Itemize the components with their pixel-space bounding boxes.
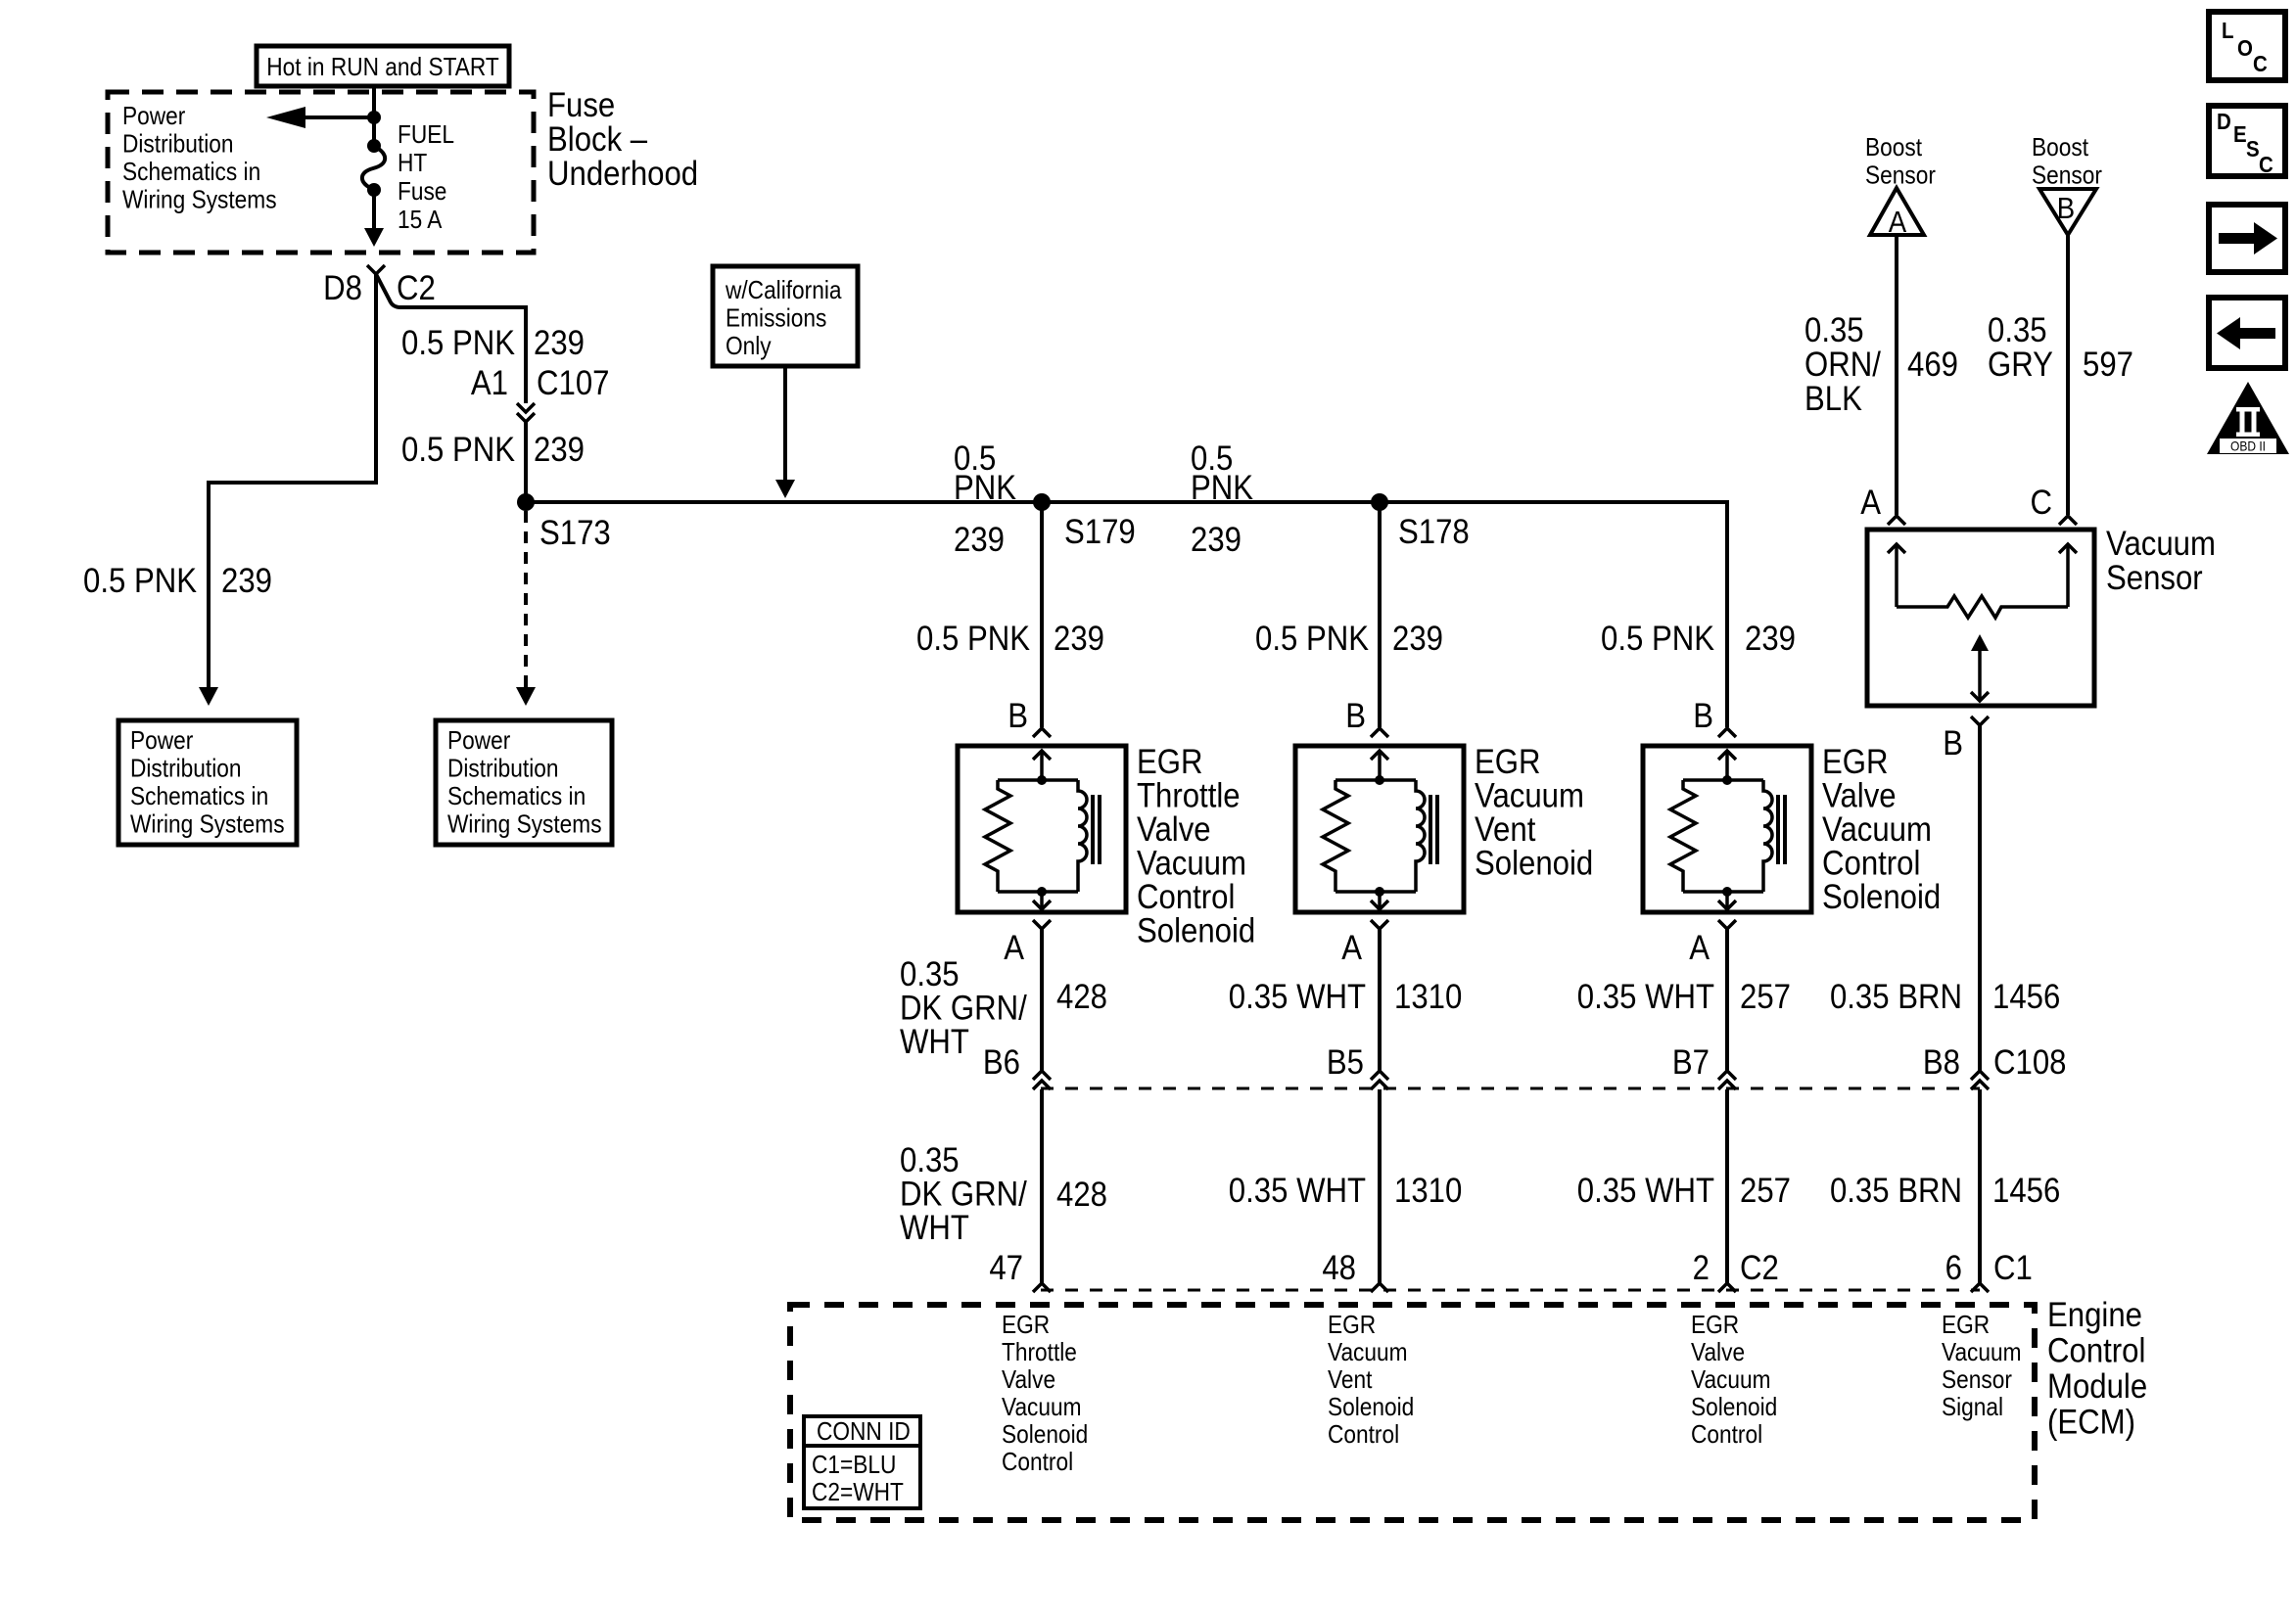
in-line connector C108 dashed line — [1041, 1087, 1980, 1090]
label: Fuse Block - Underhood — [547, 86, 698, 193]
wire: solenoid 2 pin A down to connector C108 — [1378, 929, 1382, 1071]
svg-text:B: B — [1007, 697, 1028, 735]
in-line connector chevrons at C108 (wire 3) — [1718, 1071, 1736, 1089]
svg-text:Sensor: Sensor — [2032, 162, 2102, 190]
svg-text:DK GRN/: DK GRN/ — [900, 990, 1028, 1028]
solenoid 1 box — [958, 746, 1126, 912]
solenoid 3 coil — [1763, 780, 1772, 892]
svg-text:428: 428 — [1056, 978, 1107, 1016]
pin chevron B (vacuum sensor) — [1971, 716, 1989, 725]
svg-text:HT: HT — [398, 150, 427, 178]
solenoid 3 internal arrow bottom — [1718, 892, 1736, 909]
solenoid 1 coil — [1078, 780, 1087, 892]
wire: solenoid 1 pin A down to connector C108 — [1040, 929, 1044, 1071]
svg-text:EGR: EGR — [1475, 743, 1541, 781]
svg-text:239: 239 — [221, 562, 272, 600]
svg-text:Distribution: Distribution — [447, 755, 558, 783]
boost sensor A off-page triangle — [1870, 188, 1924, 239]
OBD II icon triangle — [2207, 382, 2289, 454]
svg-text:239: 239 — [1054, 620, 1104, 658]
label: solenoid 2 name — [1475, 743, 1593, 883]
label: 0.35 DK GRN/ WHT | 428 (upper) — [900, 955, 1107, 1061]
vacuum sensor pin C arm — [2059, 544, 2077, 607]
svg-text:Distribution: Distribution — [122, 130, 233, 159]
svg-text:Vacuum: Vacuum — [2106, 525, 2216, 563]
label: 0.5 PNK | 239 (solenoid 3 feed) — [1601, 620, 1796, 658]
svg-text:Vacuum: Vacuum — [1942, 1339, 2022, 1367]
svg-text:Vacuum: Vacuum — [1691, 1366, 1771, 1395]
solenoid 3 top rail — [1683, 778, 1763, 782]
svg-text:6: 6 — [1945, 1249, 1962, 1287]
svg-text:0.5 PNK: 0.5 PNK — [83, 562, 197, 600]
svg-text:S: S — [2246, 136, 2260, 162]
svg-text:469: 469 — [1907, 346, 1958, 384]
solenoid 3 box — [1643, 746, 1811, 912]
svg-text:B5: B5 — [1327, 1043, 1364, 1082]
svg-text:0.35: 0.35 — [900, 1141, 960, 1179]
label: solenoid 1 name — [1137, 743, 1255, 950]
power source box "Hot in RUN and START" — [257, 46, 509, 86]
svg-text:PNK: PNK — [954, 469, 1016, 507]
svg-text:Fuse: Fuse — [547, 86, 615, 124]
solenoid 2 core bars — [1430, 795, 1437, 864]
svg-text:L: L — [2222, 18, 2234, 43]
splice S178 — [1371, 493, 1388, 511]
svg-text:Solenoid: Solenoid — [1475, 845, 1593, 883]
label: solenoid 3 name — [1822, 743, 1941, 916]
svg-text:B6: B6 — [983, 1043, 1020, 1082]
svg-text:Solenoid: Solenoid — [1328, 1394, 1414, 1422]
solenoid 2 node bottom — [1375, 887, 1384, 897]
svg-text:2: 2 — [1693, 1249, 1710, 1287]
ECM pin row dashed line — [1041, 1289, 1980, 1292]
wire: splice to solenoid 1 pin B — [1040, 502, 1044, 727]
wire: solenoid 3 pin A down to connector C108 — [1725, 929, 1729, 1071]
svg-text:239: 239 — [534, 431, 585, 469]
svg-text:Signal: Signal — [1942, 1394, 2003, 1422]
svg-text:Throttle: Throttle — [1002, 1339, 1077, 1367]
svg-text:S178: S178 — [1398, 513, 1470, 551]
svg-text:Schematics in: Schematics in — [130, 783, 268, 811]
pin chevron A (solenoid 2) — [1371, 920, 1388, 929]
vacuum sensor pin A arm — [1888, 544, 1905, 607]
svg-text:Block –: Block – — [547, 120, 648, 159]
wire: splice to solenoid 2 pin B — [1378, 502, 1382, 727]
svg-text:239: 239 — [1191, 521, 1242, 559]
svg-text:Vacuum: Vacuum — [1137, 845, 1246, 883]
solenoid 3 node top — [1722, 775, 1732, 785]
svg-text:Control: Control — [1691, 1421, 1762, 1450]
svg-text:w/California: w/California — [725, 277, 842, 305]
vacuum sensor wiper arrow — [1971, 634, 1989, 701]
pin labels 2 | C2 — [1693, 1249, 1779, 1287]
svg-text:Hot in RUN and START: Hot in RUN and START — [266, 54, 499, 82]
wire: C108 to ECM (wire 3) — [1725, 1089, 1729, 1283]
pin chevron at ECM (wire 2) — [1371, 1283, 1388, 1292]
svg-text:0.35 BRN: 0.35 BRN — [1830, 1172, 1962, 1210]
svg-text:C: C — [2259, 152, 2273, 177]
pin chevron B (solenoid 1) — [1033, 728, 1051, 737]
solenoid 1 core bars — [1093, 795, 1100, 864]
svg-text:WHT: WHT — [900, 1209, 969, 1247]
svg-text:Engine: Engine — [2047, 1296, 2142, 1334]
svg-text:Sensor: Sensor — [1865, 162, 1936, 190]
svg-text:Throttle: Throttle — [1137, 777, 1241, 815]
engine control module dashed box — [790, 1305, 2035, 1520]
svg-text:B: B — [1345, 697, 1366, 735]
fuse FUEL HT 15 A — [362, 139, 385, 197]
svg-text:Wiring Systems: Wiring Systems — [130, 810, 285, 839]
svg-text:239: 239 — [1392, 620, 1443, 658]
svg-text:S173: S173 — [539, 514, 611, 552]
svg-text:C108: C108 — [1993, 1043, 2066, 1082]
svg-text:Distribution: Distribution — [130, 755, 241, 783]
svg-text:FUEL: FUEL — [398, 121, 454, 150]
svg-text:0.35 WHT: 0.35 WHT — [1229, 978, 1366, 1016]
DESC icon box — [2209, 106, 2285, 177]
svg-text:Solenoid: Solenoid — [1822, 878, 1941, 916]
wire: C108 to ECM (wire 1) — [1040, 1089, 1044, 1283]
svg-text:S179: S179 — [1064, 513, 1136, 551]
svg-text:Wiring Systems: Wiring Systems — [447, 810, 602, 839]
note: Power Distribution Schematics in Wiring Systems (fuse block) — [122, 103, 277, 214]
label: 0.35 BRN | 1456 (lower) — [1830, 1172, 2060, 1210]
svg-text:Control: Control — [2047, 1332, 2145, 1370]
label: Boost Sensor (A) — [1865, 134, 1936, 190]
label: 0.5 PNK | 239 (C2 branch) — [401, 324, 585, 362]
solenoid 1 internal arrow bottom — [1033, 892, 1051, 909]
svg-text:0.35 WHT: 0.35 WHT — [1229, 1172, 1366, 1210]
svg-text:0.35 WHT: 0.35 WHT — [1577, 978, 1714, 1016]
svg-text:E: E — [2233, 121, 2247, 147]
svg-text:C2=WHT: C2=WHT — [812, 1479, 904, 1507]
solenoid 2 node top — [1375, 775, 1384, 785]
solenoid 2 internal arrow bottom — [1371, 892, 1388, 909]
label: 0.35 WHT | 257 (lower) — [1577, 1172, 1791, 1210]
label: Boost Sensor (B) — [2032, 134, 2102, 190]
svg-text:239: 239 — [954, 521, 1005, 559]
svg-text:A: A — [1004, 929, 1025, 967]
svg-text:0.5 PNK: 0.5 PNK — [916, 620, 1030, 658]
svg-text:Control: Control — [1002, 1449, 1073, 1477]
svg-text:(ECM): (ECM) — [2047, 1404, 2135, 1442]
label: 0.35 GRY | 597 — [1988, 311, 2133, 384]
wire: C2 branch to C107 — [376, 274, 526, 403]
svg-text:Boost: Boost — [1865, 134, 1922, 162]
svg-text:D: D — [2217, 109, 2231, 134]
pin chevron at ECM (wire 3) — [1718, 1283, 1736, 1292]
label: 0.35 WHT | 1310 (upper) — [1229, 978, 1462, 1016]
svg-text:Valve: Valve — [1691, 1339, 1745, 1367]
svg-text:Valve: Valve — [1137, 810, 1211, 849]
svg-text:Solenoid: Solenoid — [1691, 1394, 1777, 1422]
in-line connector C107 double chevron — [517, 403, 535, 422]
solenoid 2 internal arrow top — [1371, 751, 1388, 780]
pin labels D8 | C2 — [323, 269, 436, 307]
label: FUEL HT Fuse 15 A — [398, 121, 454, 235]
svg-text:Wiring Systems: Wiring Systems — [122, 186, 277, 214]
vacuum sensor box — [1867, 530, 2094, 706]
arrow: feed to power distribution schematics (left) — [266, 107, 374, 128]
solenoid 1 top rail — [998, 778, 1078, 782]
svg-text:Valve: Valve — [1822, 777, 1897, 815]
svg-text:0.5 PNK: 0.5 PNK — [401, 324, 515, 362]
splice S173 — [517, 493, 535, 511]
svg-text:Solenoid: Solenoid — [1002, 1421, 1088, 1450]
pin labels 6 | C1 — [1945, 1249, 2033, 1287]
svg-text:Power: Power — [122, 103, 185, 131]
solenoid 1 bottom rail — [998, 890, 1078, 894]
label: 0.35 WHT | 257 (upper) — [1577, 978, 1791, 1016]
svg-text:GRY: GRY — [1988, 346, 2053, 384]
wire: C107 to S173 — [524, 422, 528, 502]
svg-text:428: 428 — [1056, 1176, 1107, 1214]
pin chevron at ECM (sensor wire) — [1971, 1283, 1989, 1292]
svg-text:0.5 PNK: 0.5 PNK — [1255, 620, 1369, 658]
svg-text:EGR: EGR — [1822, 743, 1889, 781]
svg-text:Only: Only — [726, 333, 773, 361]
svg-text:A1: A1 — [471, 364, 508, 402]
svg-text:47: 47 — [989, 1249, 1023, 1287]
label: 0.35 ORN/ BLK | 469 — [1804, 311, 1958, 418]
solenoid 2 top rail — [1335, 778, 1416, 782]
in-line connector chevrons at C108 (wire 2) — [1371, 1071, 1388, 1089]
solenoid 3 node bottom — [1722, 887, 1732, 897]
svg-text:597: 597 — [2083, 346, 2133, 384]
solenoid 2 coil — [1416, 780, 1425, 892]
svg-text:CONN ID: CONN ID — [817, 1418, 911, 1447]
solenoid 2 box — [1295, 746, 1464, 912]
svg-text:C2: C2 — [397, 269, 436, 307]
svg-text:Boost: Boost — [2032, 134, 2088, 162]
forward arrow icon box — [2209, 205, 2285, 272]
ECM pin function: EGR Vacuum Sensor Signal — [1942, 1312, 2022, 1422]
ECM pin function: EGR Valve Vacuum Solenoid Control — [1691, 1312, 1777, 1450]
pin chevron A (solenoid 3) — [1718, 920, 1736, 929]
svg-text:A: A — [1689, 929, 1710, 967]
label: 0.35 BRN | 1456 (upper) — [1830, 978, 2060, 1016]
svg-text:Underhood: Underhood — [547, 155, 698, 193]
labels 0.5 PNK / 239 left of S179 — [954, 439, 1016, 559]
svg-text:Schematics in: Schematics in — [447, 783, 586, 811]
vacuum sensor label — [2106, 525, 2216, 597]
svg-text:0.35: 0.35 — [900, 955, 960, 993]
svg-text:Control: Control — [1328, 1421, 1399, 1450]
label: 0.5 PNK | 239 (below C107) — [401, 431, 585, 469]
svg-text:EGR: EGR — [1002, 1312, 1050, 1340]
in-line connector chevrons at C108 (sensor wire) — [1971, 1071, 1989, 1089]
svg-text:BLK: BLK — [1804, 380, 1862, 418]
svg-text:257: 257 — [1740, 1172, 1791, 1210]
svg-text:1310: 1310 — [1394, 1172, 1462, 1210]
solenoid 3 internal arrow top — [1718, 751, 1736, 780]
wire: C108 to ECM (sensor wire) — [1978, 1089, 1982, 1283]
svg-text:Vent: Vent — [1475, 810, 1535, 849]
arrow into left power distribution box — [199, 687, 218, 706]
solenoid 2 resistor — [1323, 780, 1348, 892]
power distribution schematics box (left) — [118, 720, 297, 845]
svg-text:B7: B7 — [1672, 1043, 1710, 1082]
pin chevron A (solenoid 1) — [1033, 920, 1051, 929]
svg-text:C1=BLU: C1=BLU — [812, 1452, 896, 1480]
labels 0.5 PNK / 239 left of S178 — [1191, 439, 1253, 559]
label: 0.5 PNK | 239 (D8 branch) — [83, 562, 272, 600]
svg-text:Schematics in: Schematics in — [122, 159, 260, 187]
solenoid 3 resistor — [1670, 780, 1696, 892]
svg-text:Vent: Vent — [1328, 1366, 1373, 1395]
svg-text:A: A — [1860, 484, 1882, 522]
svg-text:C1: C1 — [1993, 1249, 2033, 1287]
vacuum sensor resistor element — [1897, 596, 2068, 618]
svg-text:Emissions: Emissions — [726, 304, 826, 333]
svg-text:B: B — [2057, 192, 2075, 226]
svg-text:Power: Power — [447, 727, 510, 756]
svg-text:0.35: 0.35 — [1988, 311, 2047, 349]
connector ID table — [804, 1416, 920, 1508]
svg-text:B: B — [1693, 697, 1713, 735]
svg-text:1456: 1456 — [1992, 1172, 2060, 1210]
wire: boost sensor A to vacuum sensor pin A — [1895, 235, 1898, 515]
solenoid 2 bottom rail — [1335, 890, 1416, 894]
svg-text:C2: C2 — [1740, 1249, 1779, 1287]
svg-text:Vacuum: Vacuum — [1002, 1394, 1082, 1422]
pin labels A and C (vacuum sensor) — [1860, 484, 2052, 522]
svg-text:C: C — [2031, 484, 2052, 522]
svg-text:Power: Power — [130, 727, 193, 756]
svg-text:Valve: Valve — [1002, 1366, 1055, 1395]
pin labels B8 | C108 — [1923, 1043, 2067, 1082]
svg-text:15 A: 15 A — [398, 207, 443, 235]
back arrow icon box — [2209, 298, 2285, 368]
svg-text:48: 48 — [1322, 1249, 1356, 1287]
solenoid 1 node top — [1037, 775, 1047, 785]
pin chevron B (solenoid 3) — [1718, 728, 1736, 737]
arrow: california note to bus — [775, 366, 795, 498]
svg-text:C107: C107 — [537, 364, 609, 402]
svg-text:Module: Module — [2047, 1367, 2147, 1406]
svg-text:1310: 1310 — [1394, 978, 1462, 1016]
solenoid 3 bottom rail — [1683, 890, 1763, 894]
svg-text:ORN/: ORN/ — [1804, 346, 1882, 384]
svg-text:257: 257 — [1740, 978, 1791, 1016]
svg-text:A: A — [1889, 206, 1907, 240]
pin chevrons A and C (vacuum sensor) — [1888, 516, 2077, 525]
svg-text:0.35: 0.35 — [1804, 311, 1864, 349]
pin labels A1 | C107 — [471, 364, 610, 402]
svg-text:Vacuum: Vacuum — [1328, 1339, 1408, 1367]
svg-text:Solenoid: Solenoid — [1137, 912, 1255, 950]
svg-text:Control: Control — [1822, 845, 1920, 883]
svg-text:A: A — [1341, 929, 1363, 967]
label: 0.5 PNK | 239 (solenoid 1 feed) — [916, 620, 1104, 658]
svg-text:Fuse: Fuse — [398, 178, 446, 207]
wire: boost sensor B to vacuum sensor pin C — [2066, 235, 2070, 515]
label: 0.35 DK GRN/ WHT | 428 (lower) — [900, 1141, 1107, 1247]
label: 0.35 WHT | 1310 (lower) — [1229, 1172, 1462, 1210]
label: Engine Control Module (ECM) — [2047, 1296, 2147, 1442]
svg-text:Control: Control — [1137, 878, 1235, 916]
svg-text:O: O — [2237, 35, 2253, 61]
wire: hot feed from box into fuse block — [367, 86, 381, 146]
pin chevron B (solenoid 2) — [1371, 728, 1388, 737]
ECM pin function: EGR Throttle Valve Vacuum Solenoid Control — [1002, 1312, 1088, 1477]
splice S179 — [1033, 493, 1051, 511]
in-line connector chevrons at C108 (wire 1) — [1033, 1071, 1051, 1089]
svg-text:DK GRN/: DK GRN/ — [900, 1176, 1028, 1214]
svg-text:PNK: PNK — [1191, 469, 1253, 507]
pin chevron at ECM (wire 1) — [1033, 1283, 1051, 1292]
svg-text:0.5 PNK: 0.5 PNK — [401, 431, 515, 469]
solenoid 1 node bottom — [1037, 887, 1047, 897]
dashed wire: S173 down to power distribution box (right) — [516, 511, 536, 706]
fuse block - underhood dashed box — [108, 92, 534, 253]
svg-text:0.35 WHT: 0.35 WHT — [1577, 1172, 1714, 1210]
svg-text:EGR: EGR — [1137, 743, 1203, 781]
svg-text:EGR: EGR — [1691, 1312, 1739, 1340]
svg-text:B8: B8 — [1923, 1043, 1960, 1082]
main bus wire PNK 239 — [526, 502, 1727, 727]
svg-text:239: 239 — [1745, 620, 1796, 658]
svg-text:Vacuum: Vacuum — [1475, 777, 1584, 815]
svg-text:EGR: EGR — [1328, 1312, 1376, 1340]
label: 0.5 PNK | 239 (solenoid 2 feed) — [1255, 620, 1443, 658]
svg-text:D8: D8 — [323, 269, 362, 307]
LOC icon box — [2209, 12, 2285, 80]
svg-text:0.5 PNK: 0.5 PNK — [1601, 620, 1714, 658]
solenoid 3 core bars — [1778, 795, 1785, 864]
svg-text:Sensor: Sensor — [1942, 1366, 2012, 1395]
power distribution schematics box (right) — [436, 720, 612, 845]
svg-text:OBD II: OBD II — [2230, 439, 2266, 454]
svg-text:Vacuum: Vacuum — [1822, 810, 1932, 849]
svg-text:B: B — [1943, 724, 1963, 762]
connector pin D8/C2 chevron — [367, 265, 385, 274]
ECM pin function: EGR Vacuum Vent Solenoid Control — [1328, 1312, 1414, 1450]
wire: vacuum sensor B down to connector C108 — [1978, 725, 1982, 1071]
solenoid 1 internal arrow top — [1033, 751, 1051, 780]
svg-text:Sensor: Sensor — [2106, 559, 2203, 597]
arrow: fuse output down to D8 — [364, 190, 384, 247]
boost sensor B off-page triangle — [2039, 189, 2096, 235]
svg-text:C: C — [2253, 51, 2268, 76]
svg-text:1456: 1456 — [1992, 978, 2060, 1016]
svg-text:EGR: EGR — [1942, 1312, 1990, 1340]
svg-text:0.35 BRN: 0.35 BRN — [1830, 978, 1962, 1016]
solenoid 1 resistor — [985, 780, 1010, 892]
svg-text:WHT: WHT — [900, 1023, 969, 1061]
wire: C108 to ECM (wire 2) — [1378, 1089, 1382, 1283]
svg-text:239: 239 — [534, 324, 585, 362]
wire: D8 branch down and left — [209, 274, 376, 689]
w/California Emissions Only box — [713, 266, 858, 366]
